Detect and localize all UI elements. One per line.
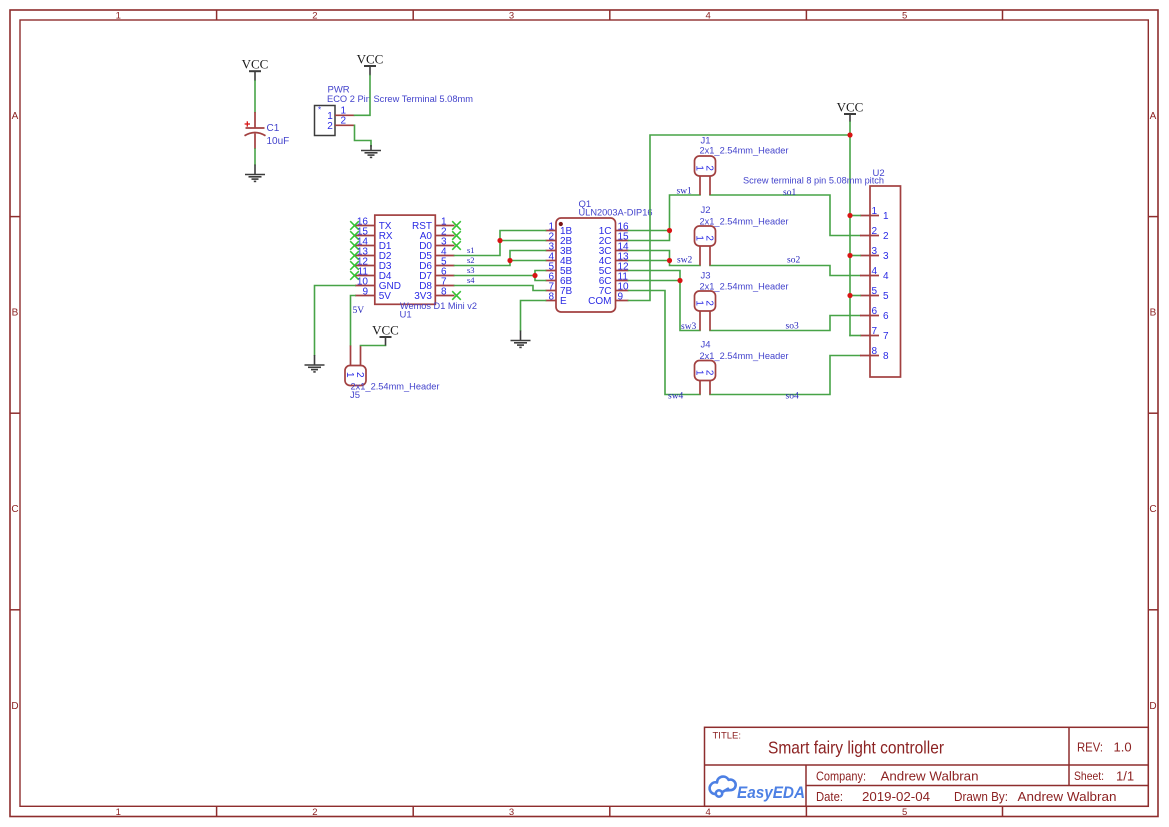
U1 pin 16 TX: [355, 225, 375, 227]
wire 2C rise to sw1: [629, 231, 670, 241]
Q1 pin 7 7B: [546, 290, 557, 292]
svg-text:6: 6: [872, 306, 878, 317]
J4 pin 2: [709, 381, 711, 395]
wire net sw3 to J3 pin1: [680, 281, 700, 331]
no-connect flag: [452, 291, 461, 300]
Q1 pin 11 6C: [616, 280, 629, 282]
svg-text:J2: J2: [701, 205, 711, 216]
U1 pin 8 3V3: [435, 295, 454, 297]
svg-text:s4: s4: [467, 275, 475, 285]
wire net s2 branch to 4B: [510, 260, 546, 262]
U2 pin 8: [860, 355, 879, 357]
PWR pin 1: [335, 114, 355, 116]
wire net so1 J1 pin2 to U2 pin2: [710, 195, 860, 236]
J5 pin 2: [360, 346, 362, 366]
wire PWR pin2 to ground: [355, 125, 372, 146]
wire net s2: [455, 251, 546, 266]
svg-text:B: B: [1150, 308, 1157, 319]
junction sw3: [677, 278, 682, 283]
Q1 pin 13 4C: [616, 260, 629, 262]
U1 pin 13 D2: [355, 255, 375, 257]
svg-text:1: 1: [693, 165, 704, 171]
U1 pin 9 5V: [355, 295, 375, 297]
connector J3 body: [695, 291, 716, 311]
connector J1 body: [695, 156, 716, 176]
svg-text:6: 6: [883, 311, 889, 322]
wire VCC rail to U2 pin5: [850, 295, 860, 297]
U1 pin 14 D1: [355, 245, 375, 247]
Q1 pin 1 1B: [546, 230, 557, 232]
svg-text:Company:: Company:: [816, 770, 866, 784]
svg-text:9: 9: [362, 287, 368, 298]
connector J2 body: [695, 226, 716, 246]
svg-text:VCC: VCC: [837, 100, 864, 115]
column numbers: [116, 11, 908, 818]
wire net s1: [455, 231, 546, 256]
junction sw1: [667, 228, 672, 233]
wire VCC to C1 pin1: [254, 81, 256, 112]
svg-text:so3: so3: [786, 322, 799, 332]
svg-text:2: 2: [883, 231, 889, 242]
U1 pin 1 RST: [435, 225, 454, 227]
svg-text:1: 1: [116, 807, 121, 818]
svg-text:Smart fairy light controller: Smart fairy light controller: [768, 738, 944, 758]
U2 pin 2: [860, 235, 879, 237]
svg-text:2: 2: [341, 115, 347, 126]
U1 pin 4 D5: [435, 255, 454, 257]
J2 pin 2: [709, 246, 711, 266]
wire Q1 E to ground: [521, 301, 546, 331]
svg-text:9: 9: [618, 292, 624, 303]
U1 pin 5 D6: [435, 265, 454, 267]
svg-text:1.0: 1.0: [1114, 740, 1132, 755]
ground below Q1: [511, 331, 531, 348]
Q1 pin 5 5B: [546, 270, 557, 272]
wire net s3 branches to 5B 6B: [535, 271, 546, 281]
no-connect flag: [452, 221, 461, 230]
svg-text:Sheet:: Sheet:: [1074, 769, 1104, 783]
svg-text:VCC: VCC: [242, 57, 269, 72]
svg-text:sw2: sw2: [677, 256, 693, 266]
PWR pin 2: [335, 124, 355, 126]
svg-text:3: 3: [883, 251, 889, 262]
J4 pin 1: [699, 381, 701, 395]
C1 plus sign: [245, 121, 250, 126]
junction s2: [507, 258, 512, 263]
junction s1: [497, 238, 502, 243]
wire VCC rail to U2 pin7: [850, 335, 860, 337]
svg-text:2: 2: [312, 11, 317, 22]
svg-text:A: A: [12, 111, 19, 122]
svg-text:8: 8: [441, 287, 447, 298]
wire VCC rail to U2 pin3: [850, 255, 860, 257]
svg-text:sw3: sw3: [681, 322, 697, 332]
svg-text:2x1_2.54mm_Header: 2x1_2.54mm_Header: [700, 146, 789, 157]
svg-text:TITLE:: TITLE:: [713, 731, 742, 742]
Q1 pin 6 6B: [546, 280, 557, 282]
svg-text:10uF: 10uF: [267, 136, 290, 147]
Q1 pin 10 7C: [616, 290, 629, 292]
Q1 pin 3 3B: [546, 250, 557, 252]
wire 6C to junction sw3: [629, 280, 681, 282]
svg-text:B: B: [12, 308, 19, 319]
svg-text:VCC: VCC: [357, 52, 384, 67]
svg-text:4: 4: [872, 266, 878, 277]
svg-text:s1: s1: [467, 245, 475, 255]
U2 pin 7: [860, 335, 879, 337]
svg-text:7: 7: [872, 326, 878, 337]
J1 pin 2: [709, 176, 711, 195]
svg-text:EasyEDA: EasyEDA: [737, 784, 805, 802]
junction U2 pin1: [847, 213, 852, 218]
Q1 pin 14 3C: [616, 250, 629, 252]
svg-text:8: 8: [872, 346, 878, 357]
svg-text:8: 8: [883, 351, 889, 362]
wire 3C drop to sw2: [629, 251, 670, 261]
svg-text:5: 5: [883, 291, 889, 302]
svg-text:so2: so2: [787, 256, 800, 266]
wire net s1 branch to 2B: [500, 240, 546, 242]
svg-text:s3: s3: [467, 265, 475, 275]
no-connect flag: [350, 251, 359, 260]
connector PWR body: [315, 106, 336, 136]
Q1 pin 8 E: [546, 300, 557, 302]
svg-text:7: 7: [883, 331, 889, 342]
no-connect flag: [350, 241, 359, 250]
svg-text:A: A: [1150, 111, 1157, 122]
wire VCC rail down to U2: [849, 135, 851, 336]
svg-text:C: C: [1149, 504, 1156, 515]
svg-text:Drawn By:: Drawn By:: [954, 790, 1008, 804]
svg-text:2: 2: [327, 121, 333, 132]
ground below PWR: [361, 151, 381, 158]
no-connect flag: [350, 271, 359, 280]
wire 1C to junction sw1: [629, 230, 670, 232]
connector J4 body: [695, 361, 716, 381]
svg-text:sw1: sw1: [677, 187, 693, 197]
title block lines: [705, 727, 1149, 806]
junction VCC rail: [847, 132, 852, 137]
svg-text:2x1_2.54mm_Header: 2x1_2.54mm_Header: [351, 382, 440, 393]
svg-text:1: 1: [693, 300, 704, 306]
wire net so3 J3 pin2 to U2 pin6: [710, 316, 860, 331]
svg-text:2: 2: [704, 300, 715, 306]
svg-text:1: 1: [693, 370, 704, 376]
EasyEDA logo: [710, 777, 736, 797]
svg-text:Date:: Date:: [816, 790, 843, 804]
svg-text:J4: J4: [701, 340, 711, 351]
U1 pin 3 D0: [435, 245, 454, 247]
U2 pin 4: [860, 275, 879, 277]
svg-text:Screw terminal 8 pin 5.08mm pi: Screw terminal 8 pin 5.08mm pitch: [743, 176, 884, 187]
no-connect flag: [350, 221, 359, 230]
svg-text:1: 1: [883, 211, 889, 222]
wire J5 pin2 to VCC: [361, 345, 386, 347]
U2 pin 3: [860, 255, 879, 257]
svg-text:ECO 2 Pin Screw Terminal 5.08m: ECO 2 Pin Screw Terminal 5.08mm: [327, 94, 473, 105]
Q1 pin 2 2B: [546, 240, 557, 242]
junction sw2: [667, 258, 672, 263]
svg-text:COM: COM: [588, 296, 611, 307]
svg-text:VCC: VCC: [372, 323, 399, 338]
wire net so4 J4 pin2 to U2 pin8: [710, 356, 860, 395]
capacitor C1 pin1: [254, 112, 256, 128]
U1 pin 7 D8: [435, 285, 454, 287]
wire C1 pin2 to ground: [254, 149, 256, 165]
no-connect flag: [350, 231, 359, 240]
svg-text:so4: so4: [786, 392, 799, 402]
svg-text:1: 1: [116, 11, 121, 22]
wire 4C to junction sw2: [629, 260, 670, 262]
U2 pin 1: [860, 215, 879, 217]
svg-text:4: 4: [883, 271, 889, 282]
svg-text:U1: U1: [400, 310, 412, 321]
wire Q1 COM to VCC: [629, 135, 851, 301]
svg-text:2: 2: [704, 235, 715, 241]
svg-text:D: D: [11, 701, 18, 712]
svg-text:2: 2: [872, 226, 878, 237]
U1 pin 11 D4: [355, 275, 375, 277]
terminal U2 body: [870, 186, 901, 377]
svg-text:2: 2: [704, 370, 715, 376]
svg-text:3: 3: [509, 807, 514, 818]
svg-text:Andrew Walbran: Andrew Walbran: [1018, 790, 1117, 804]
capacitor C1 pin2: [254, 134, 256, 150]
connector J5 body: [345, 366, 366, 386]
svg-text:1: 1: [344, 372, 355, 378]
junction s3: [532, 273, 537, 278]
svg-text:2019-02-04: 2019-02-04: [862, 790, 930, 804]
U1 pin 12 D3: [355, 265, 375, 267]
junction U2 pin3: [847, 253, 852, 258]
svg-text:E: E: [560, 296, 567, 307]
svg-text:5V: 5V: [379, 291, 392, 302]
U1 pin 15 RX: [355, 235, 375, 237]
row letters: [11, 111, 1156, 712]
no-connect flag: [452, 241, 461, 250]
svg-text:1/1: 1/1: [1116, 769, 1134, 784]
Q1 pin 4 4B: [546, 260, 557, 262]
wire net s4: [455, 286, 546, 291]
svg-text:3V3: 3V3: [414, 291, 432, 302]
wire net sw1 to J1 pin1: [670, 195, 701, 231]
J3 pin 1: [699, 311, 701, 331]
ground below U1: [305, 355, 325, 372]
svg-text:2: 2: [704, 165, 715, 171]
J1 pin 1: [699, 176, 701, 195]
svg-text:4: 4: [705, 11, 710, 22]
wire 5C drop to sw3: [629, 271, 681, 281]
svg-text:D: D: [1149, 701, 1156, 712]
svg-text:1: 1: [693, 235, 704, 241]
Q1 pin 9 COM: [616, 300, 629, 302]
svg-text:2: 2: [354, 372, 365, 378]
wire 7C to sw4 J4 pin1: [629, 291, 701, 395]
wire VCC stem: [849, 122, 851, 135]
ground below C1: [245, 165, 265, 182]
capacitor C1 polarized: [245, 128, 266, 136]
U2 pin 6: [860, 315, 879, 317]
svg-text:5: 5: [872, 286, 878, 297]
module U1 body: [375, 215, 436, 304]
svg-text:5: 5: [902, 807, 907, 818]
no-connect flag: [452, 231, 461, 240]
svg-text:ULN2003A-DIP16: ULN2003A-DIP16: [579, 208, 653, 219]
svg-text:sw4: sw4: [668, 392, 684, 402]
svg-text:*: *: [318, 106, 321, 115]
IC Q1 body: [556, 218, 616, 312]
svg-text:Andrew Walbran: Andrew Walbran: [881, 770, 979, 784]
U1 pin 6 D7: [435, 275, 454, 277]
wire net s3: [455, 275, 536, 277]
wire VCC rail to U2 pin1: [850, 215, 860, 217]
wire net so2 J2 pin2 to U2 pin4: [710, 266, 860, 276]
Q1 pin 16 1C: [616, 230, 629, 232]
svg-text:2: 2: [312, 807, 317, 818]
wire PWR pin1 to VCC: [355, 76, 371, 116]
U1 pin 10 GND: [355, 285, 375, 287]
U2 pin 5: [860, 295, 879, 297]
svg-text:3: 3: [509, 11, 514, 22]
svg-text:8: 8: [548, 292, 554, 303]
junction U2 pin5: [847, 293, 852, 298]
J5 pin 1: [350, 346, 352, 366]
svg-text:1: 1: [872, 206, 878, 217]
wire U1 5V to J5 pin1: [351, 296, 356, 346]
svg-text:5V: 5V: [353, 306, 365, 316]
svg-text:4: 4: [705, 807, 710, 818]
svg-text:C: C: [11, 504, 18, 515]
no-connect flag: [350, 261, 359, 270]
svg-text:J5: J5: [350, 390, 360, 401]
svg-text:so1: so1: [783, 188, 796, 198]
wire net sw2 to J2 pin1: [670, 261, 701, 266]
Q1 pin1 marker: [559, 222, 563, 226]
svg-text:3: 3: [872, 246, 878, 257]
svg-text:5: 5: [902, 11, 907, 22]
Q1 pin 12 5C: [616, 270, 629, 272]
svg-text:s2: s2: [467, 255, 475, 265]
wire U1 GND to ground: [315, 286, 356, 356]
svg-text:REV:: REV:: [1077, 741, 1103, 755]
J2 pin 1: [699, 246, 701, 266]
svg-text:C1: C1: [267, 123, 280, 134]
svg-text:J3: J3: [701, 271, 711, 282]
U1 pin 2 A0: [435, 235, 454, 237]
J3 pin 2: [709, 311, 711, 331]
Q1 pin 15 2C: [616, 240, 629, 242]
